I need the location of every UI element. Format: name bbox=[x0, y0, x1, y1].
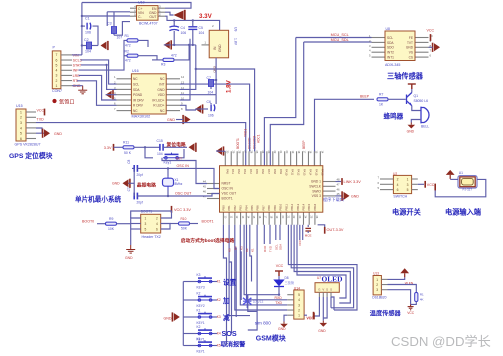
svg-text:PB6: PB6 bbox=[256, 205, 260, 211]
svg-text:VCC: VCC bbox=[407, 311, 415, 315]
svg-text:GPS 定位模块: GPS 定位模块 bbox=[9, 151, 53, 160]
ground of xtal bbox=[123, 179, 129, 187]
svg-text:D7 V13: D7 V13 bbox=[253, 300, 264, 304]
svg-text:U9: U9 bbox=[234, 27, 238, 31]
label oximeter port bbox=[52, 99, 56, 103]
wire MAX VDD 1.8V bbox=[180, 94, 216, 96]
svg-text:PB9: PB9 bbox=[273, 205, 277, 211]
sensor chip U8 ADXL345 bbox=[372, 37, 386, 39]
svg-text:V: V bbox=[322, 288, 324, 292]
wire 3.3V top rail bbox=[82, 3, 191, 9]
svg-text:45: 45 bbox=[203, 185, 207, 189]
power arrow of temp bbox=[404, 273, 406, 277]
svg-text:GND: GND bbox=[407, 129, 415, 133]
wire bell bottom bbox=[411, 120, 421, 123]
wire MCU_SDL bbox=[304, 41, 372, 43]
svg-text:OSC OUT: OSC OUT bbox=[175, 192, 192, 196]
svg-text:IR LED+: IR LED+ bbox=[152, 98, 164, 102]
connector P CON7 bbox=[52, 51, 61, 89]
wire collector to bell bbox=[412, 106, 421, 111]
svg-text:3: 3 bbox=[298, 303, 300, 307]
svg-text:电源输入端: 电源输入端 bbox=[445, 207, 482, 216]
svg-text:1: 1 bbox=[298, 314, 300, 318]
capacitor C9 xtal bbox=[134, 193, 137, 200]
svg-text:ADC1: ADC1 bbox=[257, 134, 261, 143]
svg-text:GND: GND bbox=[406, 46, 414, 50]
button KEY2 bbox=[183, 299, 196, 301]
svg-text:VCC: VCC bbox=[37, 109, 45, 113]
crystal X1 bbox=[167, 168, 169, 176]
svg-text:VCC: VCC bbox=[307, 317, 315, 321]
wire R10 right bbox=[190, 223, 199, 225]
svg-text:PB16: PB16 bbox=[313, 203, 317, 210]
svg-text:104: 104 bbox=[157, 152, 163, 156]
resistor R10 bbox=[179, 222, 190, 225]
svg-text:5: 5 bbox=[407, 188, 409, 192]
svg-text:472: 472 bbox=[171, 54, 177, 58]
svg-text:R11: R11 bbox=[123, 140, 129, 144]
svg-text:BCWL4T07: BCWL4T07 bbox=[139, 21, 158, 25]
svg-text:5: 5 bbox=[20, 132, 22, 136]
svg-text:MCU_SCL: MCU_SCL bbox=[331, 33, 349, 37]
svg-text:4: 4 bbox=[56, 69, 58, 73]
resistor R1 bbox=[127, 39, 138, 42]
svg-text:Header TX2: Header TX2 bbox=[142, 235, 161, 239]
wire oled vcc bbox=[315, 297, 320, 316]
svg-text:3: 3 bbox=[20, 121, 22, 125]
svg-text:VSS 3: VSS 3 bbox=[312, 194, 322, 198]
svg-text:K1: K1 bbox=[250, 248, 254, 252]
wire bus mcu to oled bbox=[288, 225, 357, 310]
svg-text:PB5: PB5 bbox=[250, 205, 254, 211]
svg-text:VS: VS bbox=[409, 51, 413, 55]
svg-text:4K: 4K bbox=[420, 298, 424, 302]
button KEY1 bbox=[183, 345, 196, 347]
svg-text:C2: C2 bbox=[84, 38, 89, 42]
svg-text:PB12: PB12 bbox=[290, 203, 294, 210]
svg-text:PA10: PA10 bbox=[285, 169, 289, 176]
svg-text:SOS: SOS bbox=[222, 329, 237, 338]
svg-text:IR DRV: IR DRV bbox=[133, 98, 145, 102]
svg-text:INT2: INT2 bbox=[387, 51, 394, 55]
svg-text:U8: U8 bbox=[386, 27, 390, 31]
svg-text:PA4: PA4 bbox=[249, 169, 253, 174]
svg-text:4: 4 bbox=[298, 298, 300, 302]
power VCC bar of input bbox=[434, 184, 436, 191]
svg-text:SWCLK: SWCLK bbox=[309, 185, 322, 189]
capacitor C7 bbox=[213, 79, 217, 81]
svg-text:U13: U13 bbox=[373, 272, 379, 276]
svg-text:BEEP: BEEP bbox=[302, 140, 306, 149]
wire P VIN bbox=[72, 54, 82, 56]
ground near MAX PGND bbox=[106, 91, 112, 99]
svg-text:K3: K3 bbox=[239, 246, 243, 250]
svg-text:MCE: MCE bbox=[305, 234, 312, 238]
wire boot left loop bbox=[131, 218, 141, 233]
svg-text:4: 4 bbox=[156, 222, 158, 226]
svg-text:启动方式为boot选择电路: 启动方式为boot选择电路 bbox=[181, 237, 235, 244]
svg-text:STAT: STAT bbox=[73, 64, 82, 68]
svg-text:GND: GND bbox=[218, 44, 222, 52]
svg-text:R3: R3 bbox=[161, 62, 165, 66]
svg-text:VCC: VCC bbox=[427, 28, 435, 32]
svg-text:SCL: SCL bbox=[387, 36, 393, 40]
wire oled sda bbox=[330, 297, 332, 308]
svg-text:CSDN @DD学长: CSDN @DD学长 bbox=[391, 334, 491, 349]
svg-text:GND: GND bbox=[54, 132, 62, 136]
svg-text:PA15: PA15 bbox=[314, 169, 318, 176]
svg-text:R9: R9 bbox=[109, 217, 113, 221]
svg-text:U16: U16 bbox=[132, 69, 139, 73]
svg-text:1: 1 bbox=[20, 110, 22, 114]
svg-text:三轴传感器: 三轴传感器 bbox=[387, 72, 424, 81]
svg-text:ADXL345: ADXL345 bbox=[385, 63, 400, 67]
svg-text:sim 800: sim 800 bbox=[255, 320, 272, 325]
net label LINK 3.3V bbox=[336, 181, 342, 183]
capacitor C5 bbox=[192, 20, 194, 26]
wire osc in bbox=[137, 168, 219, 188]
svg-text:晶振电路: 晶振电路 bbox=[137, 181, 156, 188]
wire MAX led supply bbox=[180, 39, 190, 100]
svg-text:47: 47 bbox=[337, 183, 341, 187]
svg-text:TXD: TXD bbox=[37, 118, 45, 122]
resistor R2 bbox=[124, 55, 127, 57]
svg-text:SWIO: SWIO bbox=[312, 189, 321, 193]
svg-text:4: 4 bbox=[397, 183, 399, 187]
svg-text:C5: C5 bbox=[199, 26, 203, 30]
svg-text:106: 106 bbox=[208, 114, 214, 118]
svg-text:GND: GND bbox=[167, 118, 175, 122]
ground at mcu pin1 bbox=[216, 147, 222, 155]
svg-text:OSC IN: OSC IN bbox=[177, 164, 190, 168]
svg-text:R LED+: R LED+ bbox=[153, 104, 164, 108]
svg-text:TXD1: TXD1 bbox=[244, 129, 248, 137]
capacitor C15 bbox=[160, 144, 163, 151]
svg-text:INT: INT bbox=[159, 83, 164, 87]
wire bus mcu bottom to keys bbox=[229, 225, 250, 316]
svg-text:PB11: PB11 bbox=[284, 204, 288, 211]
capacitor C4 bbox=[173, 20, 175, 26]
wire GPS gnd pins bbox=[36, 128, 42, 133]
svg-text:3: 3 bbox=[145, 222, 147, 226]
button reset key bbox=[145, 147, 153, 158]
svg-text:PA2: PA2 bbox=[237, 169, 241, 174]
svg-text:BOOT1: BOOT1 bbox=[222, 197, 233, 201]
svg-text:复位电路: 复位电路 bbox=[166, 141, 186, 148]
svg-text:VCC: VCC bbox=[427, 183, 435, 187]
wire temp gnd bbox=[388, 290, 411, 305]
ground of boot header bbox=[130, 233, 132, 245]
svg-text:S: S bbox=[330, 288, 332, 292]
svg-text:SDA: SDA bbox=[387, 41, 394, 45]
wire bus key columns bbox=[223, 225, 226, 346]
svg-text:GND: GND bbox=[213, 66, 217, 74]
svg-text:NC: NC bbox=[160, 77, 165, 81]
svg-text:温度传感器: 温度传感器 bbox=[370, 310, 402, 318]
svg-text:PB7: PB7 bbox=[261, 205, 265, 211]
svg-text:PB3: PB3 bbox=[239, 205, 243, 211]
svg-text:104: 104 bbox=[85, 50, 91, 54]
svg-text:2: 2 bbox=[298, 308, 300, 312]
svg-text:RXD: RXD bbox=[275, 296, 283, 300]
ground of P bbox=[78, 86, 87, 94]
wire jack loop bbox=[450, 178, 458, 180]
capacitor mcu decouple bbox=[307, 225, 309, 227]
svg-text:三极管: 三极管 bbox=[285, 280, 295, 285]
svg-text:KEY3: KEY3 bbox=[197, 285, 205, 289]
junction bbox=[81, 15, 83, 17]
wire stub OSC32 bbox=[249, 138, 251, 151]
svg-text:SCL: SCL bbox=[133, 83, 139, 87]
wire xtal left rail bbox=[133, 168, 135, 196]
svg-text:GPS VK2828U7: GPS VK2828U7 bbox=[15, 143, 41, 147]
svg-text:PA12: PA12 bbox=[297, 169, 301, 176]
resistor R9 bbox=[106, 222, 117, 225]
wire mcu right out 3.3V bbox=[318, 225, 325, 230]
wire P GND bbox=[72, 85, 83, 87]
svg-text:47: 47 bbox=[203, 195, 207, 199]
svg-text:PA13: PA13 bbox=[303, 169, 307, 176]
capacitor C6 bbox=[215, 95, 217, 104]
wire boot right loop bbox=[161, 224, 170, 230]
svg-text:C6: C6 bbox=[207, 100, 211, 104]
svg-text:PA7: PA7 bbox=[267, 169, 271, 174]
svg-text:K2: K2 bbox=[217, 298, 221, 302]
wire P LRD bbox=[79, 75, 117, 100]
svg-text:PGND: PGND bbox=[133, 93, 143, 97]
svg-text:106: 106 bbox=[85, 31, 91, 35]
transistor Q1 bbox=[407, 93, 412, 106]
svg-text:3: 3 bbox=[56, 74, 58, 78]
wire BEEP from MCU bbox=[315, 99, 375, 165]
wire MAX to mcu stub2 bbox=[196, 69, 255, 151]
svg-text:GND 1: GND 1 bbox=[311, 180, 321, 184]
ground of oled bbox=[322, 321, 324, 323]
svg-text:4: 4 bbox=[20, 126, 22, 130]
svg-text:PA0: PA0 bbox=[225, 169, 229, 174]
svg-text:10K: 10K bbox=[108, 227, 115, 231]
ground of temp bbox=[408, 304, 414, 309]
svg-text:6: 6 bbox=[20, 137, 22, 141]
svg-text:1: 1 bbox=[145, 216, 147, 220]
wire osc out bbox=[137, 194, 219, 197]
svg-text:472: 472 bbox=[125, 59, 131, 63]
svg-text:S: S bbox=[326, 288, 328, 292]
mcu U5 body bbox=[224, 151, 226, 165]
svg-text:GND: GND bbox=[278, 327, 286, 331]
wire VIN vertical bbox=[81, 3, 83, 55]
wire U9 output down bbox=[215, 58, 217, 95]
svg-text:2: 2 bbox=[397, 178, 399, 182]
svg-text:BELL: BELL bbox=[421, 124, 429, 128]
ground of GPS bbox=[44, 129, 50, 137]
ground of C2 bbox=[101, 42, 107, 50]
wire MAX GND bbox=[180, 45, 196, 90]
svg-text:电源开关: 电源开关 bbox=[392, 207, 422, 216]
wire reset node bbox=[134, 146, 160, 148]
svg-text:K4: K4 bbox=[217, 332, 221, 336]
svg-text:OLED: OLED bbox=[322, 275, 343, 284]
svg-text:K2: K2 bbox=[197, 292, 201, 296]
svg-text:107: 107 bbox=[117, 36, 123, 40]
svg-text:CON7: CON7 bbox=[52, 89, 62, 93]
svg-text:PB0: PB0 bbox=[221, 205, 225, 211]
svg-text:MAX30102: MAX30102 bbox=[132, 114, 151, 118]
svg-text:DS18B20: DS18B20 bbox=[372, 295, 386, 299]
svg-text:SWITCH: SWITCH bbox=[393, 194, 407, 198]
svg-text:R10: R10 bbox=[181, 217, 187, 221]
power VCC of switch bbox=[424, 181, 426, 188]
power VCC 3.3V of boot bbox=[171, 206, 173, 213]
svg-text:BOOT0: BOOT0 bbox=[82, 219, 94, 223]
svg-text:1: 1 bbox=[56, 84, 58, 88]
svg-text:1.8V: 1.8V bbox=[226, 79, 233, 93]
svg-text:PJ-327: PJ-327 bbox=[463, 188, 473, 192]
svg-text:3: 3 bbox=[407, 183, 409, 187]
svg-text:KEY2: KEY2 bbox=[197, 304, 205, 308]
svg-text:C3: C3 bbox=[107, 22, 112, 26]
svg-text:104: 104 bbox=[208, 91, 214, 95]
svg-text:50K: 50K bbox=[181, 227, 188, 231]
svg-text:2: 2 bbox=[376, 283, 378, 287]
capacitor C8 xtal bbox=[132, 167, 134, 169]
svg-text:K1: K1 bbox=[217, 280, 221, 284]
svg-text:加: 加 bbox=[222, 296, 230, 305]
wire C1 node bbox=[82, 15, 130, 17]
sensor chip U16 MAX30102 bbox=[117, 78, 132, 80]
ground of reset bbox=[189, 143, 195, 151]
svg-text:3.3V: 3.3V bbox=[104, 146, 112, 150]
ground of bell bbox=[410, 123, 412, 125]
svg-text:PA8: PA8 bbox=[273, 169, 277, 174]
svg-text:6: 6 bbox=[397, 188, 399, 192]
ground GND of U10 bbox=[174, 11, 184, 20]
svg-text:NC: NC bbox=[133, 109, 138, 113]
svg-text:PA9: PA9 bbox=[279, 169, 283, 174]
svg-text:PB13: PB13 bbox=[296, 203, 300, 210]
svg-text:PA11: PA11 bbox=[291, 169, 295, 176]
svg-text:取消报警: 取消报警 bbox=[221, 341, 247, 349]
capacitor C2 bbox=[82, 45, 86, 47]
svg-text:RST: RST bbox=[176, 157, 182, 161]
button KEY3 bbox=[183, 281, 196, 283]
svg-text:GND: GND bbox=[164, 316, 172, 320]
svg-text:G: G bbox=[318, 288, 320, 292]
svg-text:OUT: OUT bbox=[149, 15, 156, 19]
svg-text:单片机最小系统: 单片机最小系统 bbox=[75, 195, 122, 204]
power VCC of Q1 bbox=[411, 89, 413, 93]
svg-text:NC: NC bbox=[160, 109, 165, 113]
ground of C4 C5 bbox=[164, 41, 170, 49]
wire to NRST bbox=[162, 158, 207, 184]
svg-text:1: 1 bbox=[376, 278, 378, 282]
svg-text:PA3: PA3 bbox=[243, 169, 247, 174]
svg-text:BEEP: BEEP bbox=[360, 95, 370, 99]
svg-text:LINK 3.3V: LINK 3.3V bbox=[344, 180, 362, 184]
svg-text:SDA: SDA bbox=[133, 88, 140, 92]
svg-text:K4: K4 bbox=[233, 246, 237, 250]
svg-text:R DRV: R DRV bbox=[133, 104, 144, 108]
wire R3 to 3.3V bbox=[174, 45, 189, 60]
svg-text:X1: X1 bbox=[175, 178, 179, 182]
wire temp data bbox=[388, 285, 417, 293]
svg-text:PB2: PB2 bbox=[233, 205, 237, 211]
ground of mcu VSS bbox=[336, 195, 343, 197]
svg-text:C7: C7 bbox=[207, 76, 211, 80]
wire temp vcc bbox=[388, 277, 405, 279]
svg-text:BOOT1: BOOT1 bbox=[236, 138, 240, 149]
svg-text:SDO: SDO bbox=[387, 46, 394, 50]
svg-text:蜂鸣器: 蜂鸣器 bbox=[384, 111, 404, 120]
svg-text:472: 472 bbox=[125, 43, 131, 47]
svg-text:106: 106 bbox=[181, 31, 187, 35]
svg-text:R2: R2 bbox=[125, 49, 129, 53]
wire P STAT bbox=[81, 65, 117, 90]
wire mcu to gsm txd rxd bbox=[263, 225, 265, 244]
svg-text:PB4: PB4 bbox=[244, 205, 248, 211]
svg-text:IN: IN bbox=[213, 46, 217, 50]
svg-text:PA14: PA14 bbox=[308, 169, 312, 176]
svg-text:K1: K1 bbox=[197, 309, 201, 313]
svg-text:SDA: SDA bbox=[279, 244, 283, 250]
svg-text:U15: U15 bbox=[16, 104, 23, 108]
resistor R3 bbox=[152, 59, 163, 61]
ground of gsm bbox=[283, 322, 285, 324]
diode D7 TVS bbox=[243, 295, 251, 309]
svg-text:20pf: 20pf bbox=[137, 201, 143, 205]
svg-text:VSC OUT: VSC OUT bbox=[222, 192, 237, 196]
wire oled right nest bbox=[331, 297, 334, 310]
svg-text:C4: C4 bbox=[181, 26, 185, 30]
svg-text:Q1: Q1 bbox=[414, 94, 419, 98]
svg-text:6: 6 bbox=[156, 227, 158, 231]
wire P RTI bbox=[77, 81, 117, 106]
svg-text:GSM模块: GSM模块 bbox=[256, 334, 287, 343]
power VCC right of U14 bbox=[304, 314, 307, 316]
svg-text:PB1: PB1 bbox=[227, 205, 231, 211]
svg-text:减: 减 bbox=[223, 313, 230, 322]
svg-text:SCL3: SCL3 bbox=[73, 58, 82, 62]
wire boot top vcc bbox=[131, 211, 172, 218]
svg-text:6: 6 bbox=[56, 58, 58, 62]
svg-text:TVT: TVT bbox=[407, 41, 413, 45]
svg-text:R7: R7 bbox=[379, 92, 383, 96]
svg-text:GND: GND bbox=[157, 88, 165, 92]
svg-text:RXD: RXD bbox=[263, 245, 267, 252]
svg-text:D8: D8 bbox=[285, 276, 289, 280]
svg-text:BOOT1: BOOT1 bbox=[202, 220, 214, 224]
svg-text:K1: K1 bbox=[197, 337, 201, 341]
power arrow of input bbox=[449, 175, 451, 179]
svg-text:50 K: 50 K bbox=[124, 151, 132, 155]
svg-text:K3: K3 bbox=[197, 273, 201, 277]
svg-text:46: 46 bbox=[203, 190, 207, 194]
wire tvs box bbox=[248, 295, 257, 312]
wire D8 to rxd row bbox=[278, 287, 280, 295]
svg-text:CS: CS bbox=[409, 56, 413, 60]
svg-text:设置: 设置 bbox=[223, 278, 237, 287]
svg-text:3: 3 bbox=[376, 288, 378, 292]
wire OUT to 3.3V rail bbox=[165, 16, 220, 30]
svg-text:U1: U1 bbox=[459, 171, 463, 175]
wire R9 to header bbox=[117, 223, 131, 225]
svg-text:3.3V: 3.3V bbox=[199, 13, 213, 20]
wire cap ground bus bbox=[171, 44, 196, 46]
svg-text:2: 2 bbox=[20, 116, 22, 120]
svg-text:PB8: PB8 bbox=[267, 205, 271, 211]
svg-text:TXD: TXD bbox=[269, 245, 273, 252]
wire key left rail bbox=[182, 282, 184, 346]
